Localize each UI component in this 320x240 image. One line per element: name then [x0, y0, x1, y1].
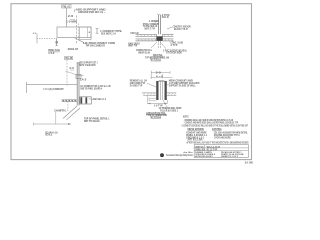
- svg-text:SCH 40: SCH 40: [162, 16, 170, 19]
- detail S: note text mid right with leader: [78, 75, 112, 90]
- detail B: slab band lower hatch: [138, 39, 173, 41]
- detail C: small dimension line: [151, 71, 173, 78]
- detail S: caption top of panel detail: [84, 117, 110, 122]
- detail S: double floor line with hatch: [62, 100, 78, 102]
- notes: column header existing underlined: [212, 129, 222, 131]
- svg-text:UNDER SLAB: UNDER SLAB: [138, 52, 150, 55]
- detail S: double conduit riser lines: [77, 62, 79, 106]
- detail B: caption detail underlined: [145, 54, 169, 61]
- title block: top row divider: [204, 145, 206, 151]
- detail B: slab section band bottom lines: [136, 39, 174, 41]
- notes: item line 3: [182, 123, 249, 127]
- svg-text:EDGE OF: EDGE OF: [68, 49, 79, 51]
- detail A: panel plan label box PNL-A: [62, 4, 71, 8]
- svg-text:1-0 MIN: 1-0 MIN: [66, 21, 77, 23]
- detail S: small dimension marks: [69, 68, 74, 70]
- notes: item line 2: [184, 121, 239, 125]
- svg-text:+DET-B2-A-1: +DET-B2-A-1: [92, 98, 107, 101]
- svg-text:2-6: 2-6: [68, 16, 75, 18]
- svg-text:AT EACH SIDE: AT EACH SIDE: [166, 52, 182, 55]
- detail A: left end riser drop with anchor blob: [55, 38, 57, 45]
- detail A: text edge of conduit: [68, 49, 79, 51]
- svg-text:1 CONDUIT PIPE: 1 CONDUIT PIPE: [100, 31, 122, 33]
- svg-text:NOT TO SCALE: NOT TO SCALE: [84, 120, 100, 123]
- svg-text:the film: the film: [184, 151, 193, 154]
- svg-text:PNL-2B: PNL-2B: [65, 58, 72, 60]
- detail C: right note new conduit support: [167, 80, 200, 88]
- svg-text:EA 14B: EA 14B: [245, 161, 253, 164]
- detail S: bottom dimension line with arrow: [34, 123, 72, 126]
- svg-text:Sacramento Municipal Utility D: Sacramento Municipal Utility District: [166, 154, 193, 157]
- svg-text:APPROVED W.LEE 1: APPROVED W.LEE 1: [195, 155, 214, 158]
- title block: row lines: [194, 148, 248, 151]
- detail A: text 1 conduit pipe: [100, 31, 122, 36]
- svg-text:EA END TYP: EA END TYP: [130, 84, 143, 87]
- detail A: leader stem from label to panel: [66, 8, 68, 27]
- svg-text:ANCHOR PER DET-A1 --: ANCHOR PER DET-A1 --: [78, 11, 106, 14]
- svg-text:1A-2: 1A-2: [80, 79, 87, 82]
- detail A: dashed conduit centerline vertical: [77, 16, 79, 45]
- detail B: left label fin flr el: [131, 33, 139, 35]
- detail A: panel body rectangle: [57, 27, 91, 38]
- detail C: ground hatch ticks: [144, 93, 176, 96]
- page number below border: [245, 161, 253, 164]
- detail C: caption anchor detail underlined: [146, 112, 167, 119]
- notes: column header new work underlined: [188, 129, 205, 131]
- title block: lower left column text: [195, 151, 215, 158]
- svg-text:NOTES: NOTES: [183, 116, 189, 118]
- detail S: dimension label E W-A-1: [45, 131, 58, 136]
- title block: outer box: [194, 145, 248, 158]
- svg-text:4 TYP: 4 TYP: [170, 44, 178, 47]
- notes: footer line: [187, 142, 249, 145]
- detail S: section label box PNL-2B: [65, 56, 73, 60]
- detail A: I-beam dimension mark right of panel: [96, 29, 99, 34]
- title block: row 2 text panel sched: [195, 148, 217, 151]
- svg-text:SUPPORT EA SIDE OF WALL: SUPPORT EA SIDE OF WALL: [169, 84, 196, 87]
- detail B: left label wwf mesh: [128, 43, 140, 47]
- svg-text:1 FOR ANCHORS: 1 FOR ANCHORS: [214, 137, 231, 140]
- svg-text:ART B 12-306: ART B 12-306: [187, 139, 203, 142]
- detail B: leader lines to pvc sleeve note: [151, 42, 166, 49]
- svg-text:PART NO: PART NO: [195, 146, 203, 149]
- detail S: wall top line: [27, 82, 78, 93]
- svg-text:GND TO PANEL BOARD A: GND TO PANEL BOARD A: [80, 88, 102, 91]
- detail C: bottom dimension line 1-6: [148, 103, 168, 108]
- detail A: leader lines below panel: [75, 38, 89, 45]
- logo: SMUD dark circle: [160, 153, 164, 157]
- detail S: coupling box on riser: [65, 71, 81, 79]
- detail C: top tag box: [151, 71, 170, 79]
- detail C: left extension L line: [148, 96, 168, 104]
- svg-text:a: a: [89, 31, 91, 34]
- detail S: pull box with dark bars: [80, 97, 92, 104]
- svg-text:BLOCK TYP AT: BLOCK TYP AT: [174, 28, 188, 31]
- notes: item line 1: [184, 118, 234, 122]
- detail B: right note concrete anchor: [167, 26, 191, 31]
- detail B: anchor block dark at crossing: [157, 34, 163, 41]
- detail S: extension line down: [55, 112, 57, 124]
- detail S: boxed tag with leader right: [89, 98, 107, 101]
- detail C: left note remove conduit: [130, 80, 156, 88]
- detail B: left note rigid steel conduit underlined: [143, 20, 159, 31]
- detail S: dashed stub below floor: [67, 102, 69, 112]
- svg-text:CHAMFER 1: CHAMFER 1: [54, 109, 67, 112]
- detail A: inner equipment box with tag a: [80, 27, 92, 39]
- svg-text:1:1-0: 1:1-0: [48, 53, 55, 55]
- svg-text:SHEET E-1 OF 2: SHEET E-1 OF 2: [222, 156, 239, 158]
- svg-text:W12-A-1147: W12-A-1147: [207, 146, 221, 149]
- detail C: dark anchor bars: [156, 81, 167, 100]
- detail C: conduit lines between bars: [160, 82, 162, 101]
- logo: utility district caption: [166, 154, 193, 157]
- svg-text:1 X 1 (E) CONDUIT: 1 X 1 (E) CONDUIT: [43, 89, 64, 91]
- notes: left column rows: [186, 132, 208, 142]
- svg-text:UP ON CONDUIT: UP ON CONDUIT: [86, 46, 106, 48]
- detail S: text chamfer left: [54, 109, 67, 112]
- svg-text:SCALE: SCALE: [45, 134, 52, 137]
- detail S: text existing conduit row: [43, 89, 64, 91]
- detail B: note compacted fill: [136, 49, 152, 54]
- svg-text:AFTER THIS SHALL NOT USE IT TH: AFTER THIS SHALL NOT USE IT THE ARCHITEC…: [187, 142, 249, 145]
- detail B: note pvc sleeve: [163, 49, 188, 54]
- svg-text:A CONDUIT SCHEDULE WILL BE ONE: A CONDUIT SCHEDULE WILL BE ONE OF THE FO…: [182, 123, 249, 127]
- notes: header: [183, 116, 189, 118]
- detail A: text new riser conduit connection: [83, 43, 115, 48]
- detail A: dimension text 2-6: [68, 16, 75, 18]
- detail B: slab section band top lines with hatch: [136, 34, 174, 36]
- detail A: dimension text 1-0 min with ticks: [66, 19, 77, 23]
- svg-text:FIN FLR: FIN FLR: [131, 33, 139, 35]
- detail A: dashed wall line to left: [33, 33, 57, 44]
- title block: lower column divider: [221, 151, 223, 158]
- logo: small text above caption: [184, 151, 193, 154]
- detail B: right label conc slab: [170, 42, 183, 47]
- detail S: break diagonals: [63, 106, 80, 120]
- detail C: premolded joint filler note: [159, 100, 183, 112]
- title block: lower right column text: [222, 151, 244, 158]
- detail A: note text add support and anchor: [75, 9, 106, 14]
- detail A: caption PANEL PLAN underlined: [48, 49, 60, 55]
- detail S: dashed centerline below label: [66, 60, 68, 86]
- svg-text:PNL-A1: PNL-A1: [63, 5, 71, 8]
- svg-text:SEE NOTE 2-A: SEE NOTE 2-A: [101, 33, 116, 36]
- notes: right column rows: [214, 132, 248, 140]
- title block: row 1 text part no: [195, 146, 220, 149]
- svg-text:WWF TYP: WWF TYP: [128, 46, 137, 48]
- detail C: footing step outline: [149, 98, 156, 101]
- detail S: note text top right with leader: [78, 62, 98, 66]
- detail C: ground lines: [142, 93, 176, 96]
- svg-text:1-6 TYP: 1-6 TYP: [154, 105, 163, 107]
- svg-text:NOTE 3 SEE NOTE: NOTE 3 SEE NOTE: [79, 65, 96, 67]
- svg-text:NOTE 3 TYP: NOTE 3 TYP: [145, 29, 156, 31]
- detail B: conduit riser double line: [159, 15, 161, 48]
- detail B: top label 2 PVC: [157, 14, 170, 19]
